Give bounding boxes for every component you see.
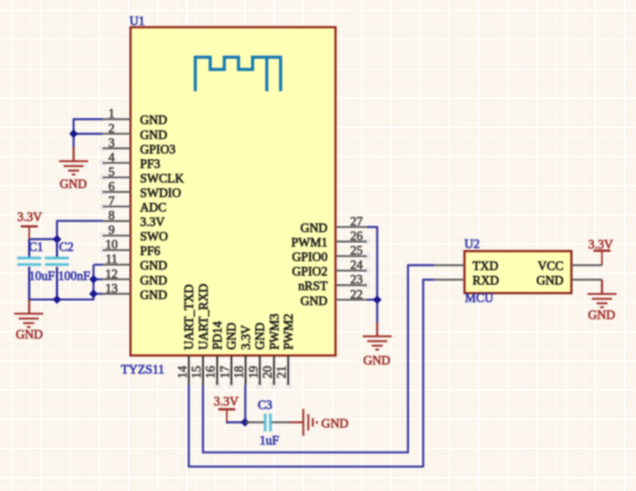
U1 designator label [130, 14, 145, 28]
U1 pin 26 (PWM1), right side [291, 229, 369, 250]
ground symbol E (U2) [588, 294, 617, 322]
svg-text:22: 22 [350, 287, 363, 301]
antenna symbol inside U1 (blue meander) [195, 57, 280, 91]
power 3.3V symbol (bottom, near C3) [214, 394, 239, 423]
wire: pin18 3.3V down to C3 node [244, 385, 246, 422]
svg-text:100nF: 100nF [58, 269, 90, 283]
svg-text:11: 11 [105, 252, 117, 266]
svg-text:VCC: VCC [538, 259, 564, 273]
svg-text:GND: GND [300, 294, 327, 308]
junction at C3 node [241, 418, 250, 427]
U1 pin 12 (GND), left side [103, 267, 168, 288]
U1 pin 17 (GND), bottom side [218, 323, 239, 388]
U1 pin 16 (PD14), bottom side [204, 320, 225, 387]
svg-text:PWM3: PWM3 [267, 314, 281, 350]
svg-text:9: 9 [108, 223, 114, 237]
svg-text:TXD: TXD [473, 259, 499, 273]
svg-text:GND: GND [225, 323, 239, 350]
wire: junction down toward GND A [73, 134, 75, 148]
capacitor C2 plates [45, 257, 69, 266]
U1 pin 19 (GND), bottom side [246, 323, 267, 388]
svg-text:8: 8 [108, 209, 114, 223]
svg-text:15: 15 [190, 366, 204, 379]
U2 part label MCU [465, 291, 494, 305]
U1 pin 20 (PWM3), bottom side [261, 314, 282, 388]
svg-text:C2: C2 [59, 240, 74, 254]
U2 pin TXD (left top) [434, 259, 498, 273]
svg-text:GPIO3: GPIO3 [140, 142, 176, 156]
svg-text:GPIO2: GPIO2 [292, 265, 328, 279]
svg-text:GND: GND [536, 274, 563, 288]
svg-text:UART_RXD: UART_RXD [196, 284, 210, 350]
C3 designator [258, 398, 273, 412]
U1 pin 13 (GND), left side [103, 281, 168, 302]
C3 value 1uF [260, 434, 280, 448]
svg-text:SWDIO: SWDIO [140, 186, 181, 200]
GND stem A (red) [73, 147, 75, 161]
C1 designator [29, 240, 44, 254]
IC U1 body (TYZS11 module) [131, 27, 336, 355]
svg-text:UART_TXD: UART_TXD [182, 284, 196, 349]
svg-text:10: 10 [105, 238, 118, 252]
capacitor C2 leads [56, 239, 58, 299]
GND stem D (red) [601, 280, 603, 294]
ground symbol B (below C1) [14, 314, 43, 342]
U1 pin 4 (PF3), left side [100, 150, 160, 171]
U1 pin 18 (3.3V), bottom side [232, 325, 253, 385]
svg-text:25: 25 [350, 244, 363, 258]
junction at pin22 [373, 295, 382, 304]
GND stem B (red) [28, 300, 30, 314]
junction at pin13 tee [89, 289, 98, 298]
U1 part number label TYZS11 [121, 362, 164, 376]
U1 pin 1 (GND), left side [103, 107, 168, 128]
svg-text:GND: GND [363, 353, 390, 367]
svg-text:7: 7 [108, 194, 114, 208]
junction at pin12 tee [89, 275, 98, 284]
U1 pin 14 (UART_TXD), bottom side [175, 284, 196, 385]
wire: 3.3V corner to C3 node [226, 421, 245, 423]
U1 pin 24 (GPIO2), right side [292, 258, 369, 279]
U1 pin 11 (GND), left side [103, 252, 168, 273]
capacitor C1 leads [28, 239, 30, 300]
U1 pin 5 (SWCLK), left side [100, 165, 184, 186]
svg-text:1: 1 [108, 107, 114, 121]
svg-text:PWM2: PWM2 [282, 314, 296, 350]
svg-text:3.3V: 3.3V [17, 210, 42, 224]
svg-text:GND: GND [140, 113, 167, 127]
svg-text:PF6: PF6 [140, 244, 160, 258]
U1 pin 10 (PF6), left side [100, 238, 160, 259]
svg-text:3.3V: 3.3V [140, 215, 165, 229]
U1 pin 6 (SWDIO), left side [100, 179, 181, 200]
svg-text:4: 4 [108, 150, 115, 164]
svg-text:23: 23 [350, 273, 363, 287]
svg-text:C3: C3 [258, 398, 273, 412]
svg-text:26: 26 [350, 229, 363, 243]
svg-text:U2: U2 [464, 237, 479, 251]
svg-text:GND: GND [588, 308, 615, 322]
wire: pin1 to GND corner [73, 118, 103, 133]
svg-text:GND: GND [140, 128, 167, 142]
U2 pin VCC (right top) [538, 259, 602, 273]
U1 pin 9 (SWO), left side [100, 223, 168, 244]
U1 pin 8 (3.3V), left side [103, 209, 165, 230]
svg-text:3.3V: 3.3V [588, 237, 613, 251]
svg-text:12: 12 [105, 267, 118, 281]
junction at C2 bottom [53, 295, 62, 304]
U1 pin 23 (nRST), right side [298, 273, 369, 294]
C1 value 10uF [29, 269, 55, 283]
svg-text:GND: GND [140, 273, 167, 287]
C2 value 100nF [58, 269, 90, 283]
wire: bottom rail C1/C2 to pins 11-13 [29, 265, 102, 301]
svg-text:GND: GND [140, 259, 167, 273]
ground symbol C (pin 22/27) [363, 336, 392, 367]
svg-text:5: 5 [108, 165, 114, 179]
wire: pin14 UART_TXD to U2 RXD [188, 280, 434, 468]
svg-text:GND: GND [140, 288, 167, 302]
svg-text:GND: GND [60, 177, 87, 191]
U1 pin 27 (GND), right side [300, 215, 367, 236]
svg-text:13: 13 [105, 281, 118, 295]
U2 pin RXD (left bottom) [434, 274, 499, 288]
junction at pin2/GND tee [69, 129, 78, 138]
capacitor C3 plates [264, 414, 272, 432]
svg-text:17: 17 [218, 366, 232, 379]
svg-text:C1: C1 [29, 240, 44, 254]
wire: pin22 stub extension [367, 299, 377, 301]
ground symbol A (pins 1-2) [59, 161, 88, 191]
U1 pin 3 (GPIO3), left side [100, 136, 175, 157]
svg-text:PWM1: PWM1 [291, 236, 327, 250]
wire: pin2 stub to junction [74, 133, 103, 135]
power 3.3V symbol (right of U2) [588, 237, 613, 265]
svg-text:6: 6 [108, 179, 114, 193]
svg-text:GND: GND [300, 221, 327, 235]
svg-text:10uF: 10uF [29, 269, 55, 283]
capacitor C1 plates [17, 257, 41, 266]
U2 designator label [464, 237, 479, 251]
wire: junction to pin12 [94, 278, 103, 280]
svg-text:GND: GND [16, 328, 43, 342]
U1 pin 21 (PWM2), bottom side [275, 314, 296, 388]
svg-text:3.3V: 3.3V [239, 325, 253, 350]
wire: pin27 GND loop to pin22 [367, 226, 377, 322]
svg-text:19: 19 [246, 366, 260, 379]
GND symbol D (rotated, right of C3) [290, 409, 348, 436]
svg-text:27: 27 [350, 215, 363, 229]
svg-text:21: 21 [275, 366, 289, 379]
svg-text:20: 20 [261, 366, 275, 379]
svg-text:PF3: PF3 [140, 157, 160, 171]
U1 pin 7 (ADC), left side [100, 194, 166, 215]
svg-text:GND: GND [253, 323, 267, 350]
wire: pin15 UART_RXD to U2 TXD [202, 265, 434, 453]
wire: pin8 3.3V to C2 top [57, 220, 103, 239]
wire: C1 top tee to C2 (horizontal) [29, 238, 57, 240]
svg-text:18: 18 [232, 366, 246, 379]
U2 pin GND (right bottom) [536, 274, 602, 288]
power 3.3V symbol (left, above C1) [17, 210, 42, 242]
svg-text:SWO: SWO [140, 230, 168, 244]
svg-text:3: 3 [108, 136, 114, 150]
U1 pin 2 (GND), left side [103, 121, 168, 142]
svg-text:TYZS11: TYZS11 [121, 362, 164, 376]
GND stem C (red) [376, 322, 378, 336]
svg-text:3.3V: 3.3V [214, 394, 239, 408]
svg-text:2: 2 [108, 121, 114, 135]
U1 pin 22 (GND), right side [300, 287, 367, 308]
IC U2 body (MCU) [465, 251, 572, 293]
svg-text:GND: GND [321, 416, 348, 430]
svg-text:ADC: ADC [140, 201, 167, 215]
svg-text:24: 24 [350, 258, 363, 272]
svg-text:RXD: RXD [473, 274, 500, 288]
wire: junction to pin13 [94, 293, 103, 295]
svg-text:1uF: 1uF [260, 434, 280, 448]
svg-text:U1: U1 [130, 14, 145, 28]
junction at C2 top tee [53, 235, 62, 244]
svg-text:nRST: nRST [298, 279, 328, 293]
U1 pin 25 (GPIO0), right side [292, 244, 369, 265]
capacitor C3 leads [245, 421, 291, 423]
C2 designator [59, 240, 74, 254]
U1 pin 15 (UART_RXD), bottom side [190, 284, 211, 385]
svg-text:GPIO0: GPIO0 [292, 250, 328, 264]
svg-text:16: 16 [204, 366, 218, 379]
svg-text:PD14: PD14 [211, 320, 225, 349]
svg-text:SWCLK: SWCLK [140, 171, 184, 185]
svg-text:14: 14 [175, 365, 189, 378]
svg-text:MCU: MCU [465, 291, 494, 305]
